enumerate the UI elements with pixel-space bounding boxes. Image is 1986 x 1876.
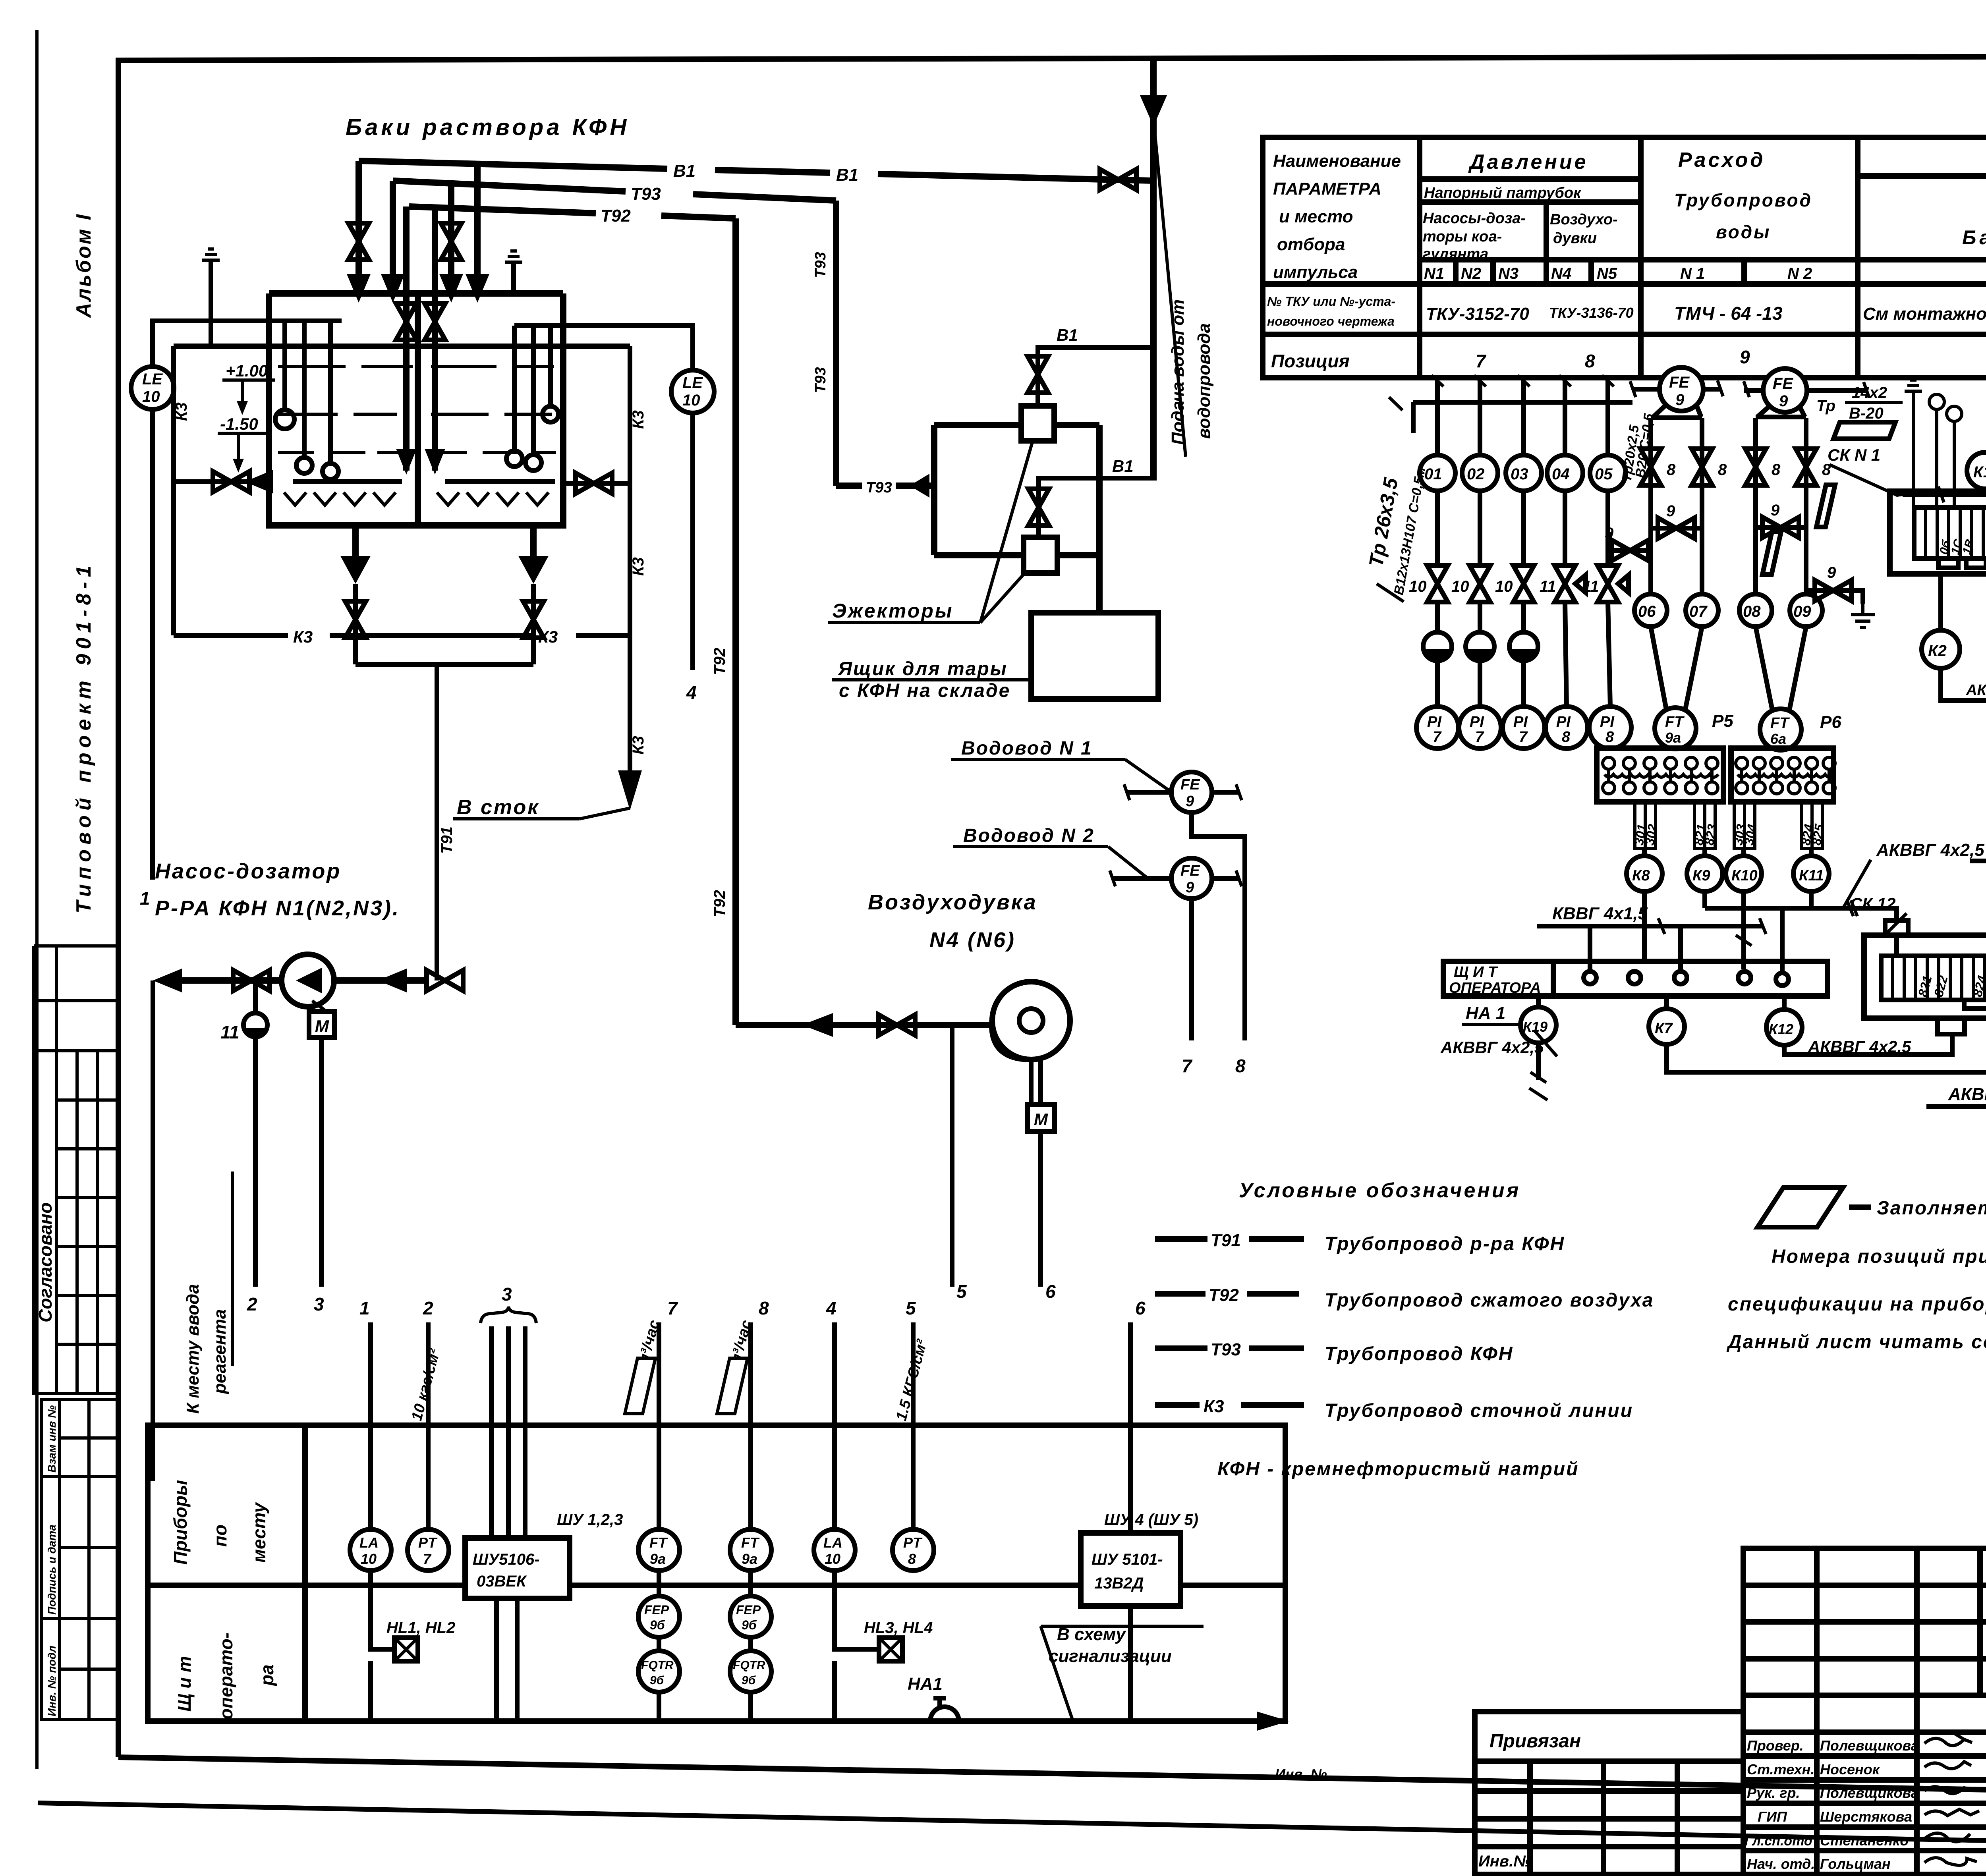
left K3 standpipe [171, 346, 176, 635]
svg-text:9б: 9б [650, 1674, 665, 1687]
false floor right tank [445, 479, 555, 484]
svg-text:Р-РА КФН N1(N2,N3).: Р-РА КФН N1(N2,N3). [155, 896, 400, 920]
blower motor box [1028, 1104, 1055, 1131]
impulse line 08 [1753, 418, 1758, 594]
impulse line 05 [1608, 381, 1610, 706]
9-valve right of 09 to ground [1806, 591, 1863, 604]
LE 10 circle right [671, 370, 714, 413]
LE 10 circle left [131, 367, 174, 409]
air pipe into right tank (Т92) with valve and arrow [432, 207, 438, 471]
tank outlet left: arrow, valve [352, 525, 359, 556]
svg-text:Шерстякова: Шерстякова [1820, 1808, 1912, 1825]
svg-text:9а: 9а [742, 1551, 757, 1567]
svg-text:В-20: В-20 [1849, 405, 1884, 422]
svg-text:К9: К9 [1692, 867, 1710, 884]
svg-text:9: 9 [1186, 793, 1194, 810]
vent stub left [209, 260, 213, 346]
К19 relay [1536, 996, 1541, 1007]
svg-text:PI: PI [1470, 714, 1484, 730]
svg-text:6а: 6а [1770, 731, 1786, 747]
svg-text:спецификации на приборы и: спецификации на приборы и средства автом… [1728, 1294, 1986, 1315]
svg-text:LE: LE [682, 374, 703, 392]
svg-text:10: 10 [142, 388, 160, 405]
flow arrow right of pump [378, 969, 407, 992]
relay К9 [1687, 856, 1723, 892]
svg-text:ШУ 5101-: ШУ 5101- [1092, 1551, 1163, 1568]
svg-text:7: 7 [423, 1551, 432, 1567]
ejector lower line [934, 552, 1099, 558]
Т93 standpipe [833, 201, 839, 486]
svg-text:Трубопровод р-ра КФН: Трубопровод р-ра КФН [1325, 1233, 1565, 1255]
pipe run Т92 [409, 207, 736, 218]
blower line down to 5 [950, 1025, 954, 1287]
svg-text:Водовод N 1: Водовод N 1 [961, 738, 1093, 759]
svg-text:В сток: В сток [457, 796, 540, 819]
blower M line down to 6 [1038, 1131, 1043, 1287]
svg-text:03ВЕК: 03ВЕК [477, 1573, 527, 1590]
cable tags 301/302 [1635, 803, 1645, 849]
relay К8 [1627, 856, 1662, 892]
svg-text:М: М [315, 1017, 329, 1035]
frame bottom line [118, 1757, 1986, 1800]
svg-text:К11: К11 [1799, 867, 1824, 884]
T91 collection header [355, 664, 533, 980]
К7 relay [1664, 996, 1669, 1009]
svg-text:11: 11 [1540, 578, 1556, 595]
sheet bottom edge line [38, 1803, 1986, 1852]
svg-text:9: 9 [1740, 347, 1750, 367]
svg-text:8: 8 [1585, 351, 1595, 371]
svg-text:ОПЕРАТОРА: ОПЕРАТОРА [1449, 980, 1541, 996]
left drain branch with valve and arrow [174, 479, 269, 484]
svg-text:8: 8 [1667, 461, 1676, 479]
svg-text:FE: FE [1773, 375, 1793, 392]
pump circle P1 [282, 954, 334, 1007]
svg-text:Баки раствора КФН: Баки раствора КФН [1962, 226, 1986, 249]
K3 drain header [174, 633, 630, 638]
svg-text:дувки: дувки [1553, 230, 1597, 247]
svg-text:7: 7 [1519, 729, 1528, 745]
svg-text:Давление: Давление [1468, 151, 1588, 174]
svg-text:Степаненко: Степаненко [1820, 1832, 1909, 1849]
cable tags 821/823 [1694, 803, 1705, 849]
svg-text:Данный лист читать совместн: Данный лист читать совместно с листом ЭЛ… [1726, 1332, 1986, 1353]
svg-text:КФН - кремнефтористый натрий: КФН - кремнефтористый натрий [1217, 1459, 1579, 1480]
svg-text:К3: К3 [293, 627, 313, 646]
svg-text:05: 05 [1595, 465, 1613, 483]
svg-text:06: 06 [1638, 603, 1656, 620]
FT 9а circle [1655, 708, 1696, 749]
svg-text:FE: FE [1180, 776, 1200, 793]
tank feed pipe 3 (Т93 branch) with valve [448, 181, 454, 278]
signatures table [1743, 1548, 1986, 1874]
svg-text:ШУ 1,2,3: ШУ 1,2,3 [557, 1511, 623, 1529]
svg-text:См монтажно-эксплуатационную: См монтажно-эксплуатационную инструкцию [1863, 304, 1986, 324]
sidebar box above Согласовано [34, 946, 118, 1051]
СК N1 wires from top [1905, 380, 1922, 391]
vent stub right [511, 262, 516, 293]
svg-text:Насос-дозатор: Насос-дозатор [155, 859, 341, 883]
svg-text:Рук. гр.: Рук. гр. [1747, 1785, 1800, 1801]
svg-text:14х2: 14х2 [1852, 384, 1887, 401]
svg-text:ПАРАМЕТРА: ПАРАМЕТРА [1273, 179, 1381, 199]
stub 1: LA10 [368, 1322, 373, 1529]
svg-text:Согласовано: Согласовано [35, 1202, 56, 1322]
FE 9 circle 1 [1660, 367, 1703, 411]
sidebar lower table: Взам инв № / Подпись и дата / Инв № подл [41, 1399, 118, 1720]
svg-text:9: 9 [1827, 564, 1836, 581]
Т92 long standpipe [732, 218, 739, 1025]
svg-text:АКВВГ 4х2,5: АКВВГ 4х2,5 [1440, 1038, 1544, 1057]
stub 6: ШУ5101 box [1128, 1322, 1133, 1533]
svg-text:Трубопровод КФН: Трубопровод КФН [1325, 1343, 1513, 1365]
svg-text:К2: К2 [1928, 642, 1947, 660]
svg-text:10: 10 [1495, 578, 1513, 595]
air pipe into left tank (Т92) with valve and arrow [403, 207, 410, 471]
svg-text:11: 11 [1582, 578, 1599, 595]
svg-text:Позиция: Позиция [1271, 351, 1350, 371]
svg-text:6: 6 [1135, 1298, 1146, 1318]
svg-text:Р6: Р6 [1820, 712, 1841, 732]
К12 relay [1782, 996, 1787, 1009]
svg-text:Инв.№: Инв.№ [1478, 1853, 1532, 1870]
svg-text:месту: месту [249, 1502, 269, 1563]
lower ejector box [1024, 537, 1057, 573]
svg-text:Приборы: Приборы [170, 1480, 191, 1565]
svg-text:НА 1: НА 1 [1466, 1004, 1505, 1023]
svg-text:FE: FE [1669, 374, 1690, 391]
ejector right vertical down to box [1096, 425, 1103, 613]
svg-text:7: 7 [1476, 351, 1487, 371]
impulse line 07 [1700, 418, 1704, 594]
upper ejector box [1021, 406, 1054, 441]
svg-text:АКВВГ 10х2,5: АКВВГ 10х2,5 [1948, 1085, 1986, 1104]
9-valve stub left of 06 [1609, 532, 1651, 550]
svg-text:9б: 9б [742, 1618, 757, 1632]
svg-text:5: 5 [956, 1281, 967, 1302]
svg-text:Воздуходувка: Воздуходувка [868, 890, 1037, 914]
svg-text:К3: К3 [630, 736, 647, 755]
right drain branch with valve [563, 481, 630, 486]
valve left of pump [233, 970, 270, 991]
svg-text:К12: К12 [1769, 1021, 1793, 1037]
svg-text:Трубопровод сжатого воздуха: Трубопровод сжатого воздуха [1325, 1290, 1654, 1311]
svg-text:8: 8 [908, 1551, 916, 1567]
svg-text:FT: FT [649, 1534, 668, 1551]
svg-text:Насосы-доза-: Насосы-доза- [1423, 210, 1526, 227]
svg-text:+1.00: +1.00 [226, 361, 268, 380]
terminal block 2 [1731, 748, 1833, 802]
svg-text:В1: В1 [1057, 326, 1078, 344]
svg-text:N 2: N 2 [1787, 265, 1812, 282]
Привязан table [1475, 1712, 1743, 1874]
svg-text:Т93: Т93 [812, 367, 829, 393]
svg-text:импульса: импульса [1273, 262, 1358, 282]
svg-text:N4: N4 [1551, 265, 1571, 282]
svg-text:2: 2 [423, 1298, 433, 1318]
svg-text:Гл.сп.отд: Гл.сп.отд [1745, 1834, 1812, 1849]
svg-text:LA: LA [359, 1534, 379, 1551]
svg-text:Т92: Т92 [711, 648, 728, 675]
tank feed pipe 4 (В1 branch) [474, 161, 481, 278]
svg-text:Ст.техн.: Ст.техн. [1747, 1761, 1814, 1778]
Ящик box [1031, 613, 1158, 699]
В сток arrow [618, 770, 642, 810]
LE right signal line down to 4 [690, 413, 695, 670]
svg-text:ШУ 4 (ШУ 5): ШУ 4 (ШУ 5) [1104, 1511, 1198, 1529]
svg-text:9: 9 [1779, 392, 1788, 410]
svg-text:АКВВГ 4х2,5: АКВВГ 4х2,5 [1876, 840, 1984, 860]
svg-text:LA: LA [823, 1534, 842, 1551]
svg-text:FT: FT [1665, 714, 1685, 730]
svg-text:8: 8 [1605, 729, 1614, 745]
svg-text:04: 04 [1552, 465, 1570, 483]
stub 3: three lines into ШУ5106 [491, 1326, 525, 1538]
svg-text:КВВГ 4х1,5: КВВГ 4х1,5 [1552, 904, 1648, 923]
svg-text:по: по [210, 1525, 230, 1547]
svg-text:10: 10 [682, 392, 700, 409]
СК N1 parallelogram + label [1833, 422, 1895, 439]
svg-text:9: 9 [1186, 879, 1194, 896]
relay К10 [1726, 856, 1762, 892]
relay К11 [1793, 856, 1829, 892]
lower ejector water valve and branch В1 [1039, 478, 1152, 537]
svg-text:ТКУ-3152-70: ТКУ-3152-70 [1426, 304, 1529, 324]
svg-text:9б: 9б [650, 1618, 665, 1632]
cable tags 303/304 [1734, 803, 1745, 849]
valve right of pump [427, 970, 463, 991]
svg-text:N1: N1 [1424, 265, 1444, 282]
svg-text:отбора: отбора [1277, 235, 1345, 254]
line from 11 down to 2 [253, 1037, 258, 1287]
svg-text:Т93: Т93 [812, 252, 829, 278]
svg-text:Заполняется при привязке пр: Заполняется при привязке проекта. [1877, 1198, 1986, 1219]
svg-text:Расход: Расход [1678, 149, 1765, 172]
svg-text:Щ И Т: Щ И Т [1454, 964, 1498, 980]
СК N1 block [1890, 491, 1986, 574]
tank outer walls [269, 293, 563, 525]
right K3 standpipe [628, 346, 632, 776]
valve on В1 top run [1100, 169, 1136, 190]
В1 main standpipe from водопровод [1150, 60, 1157, 481]
svg-text:FEP: FEP [644, 1603, 669, 1617]
svg-text:реагента: реагента [210, 1309, 230, 1394]
svg-text:8: 8 [1772, 461, 1781, 479]
svg-text:9: 9 [1666, 502, 1675, 520]
svg-text:4: 4 [686, 682, 697, 703]
9-valve between 06 07 [1651, 526, 1702, 531]
tank feed pipe 2 (Т93) [390, 181, 396, 278]
svg-text:Номера позиций приборов соо: Номера позиций приборов соответствуют за… [1772, 1246, 1986, 1267]
svg-text:торы коа-: торы коа- [1423, 228, 1502, 245]
svg-text:10: 10 [825, 1551, 840, 1567]
svg-text:ТКУ-3136-70: ТКУ-3136-70 [1549, 305, 1634, 321]
svg-text:СК N 1: СК N 1 [1828, 446, 1880, 464]
svg-text:7: 7 [667, 1298, 678, 1318]
perforation V marks left tank [284, 492, 396, 505]
row divider [148, 1583, 1285, 1588]
blower body [992, 982, 1070, 1060]
pipe run В1 [359, 161, 1153, 181]
panel outer box [148, 1425, 1285, 1721]
impulse line 06 [1648, 418, 1653, 594]
water level dash lines right tank [431, 367, 556, 453]
Щит оператора box [1443, 961, 1828, 996]
svg-text:операто-: операто- [216, 1633, 236, 1720]
impulse line 01 [1435, 381, 1440, 707]
svg-text:03: 03 [1511, 465, 1528, 483]
svg-text:Водовод N 2: Водовод N 2 [963, 825, 1095, 846]
svg-text:6: 6 [1045, 1281, 1056, 1302]
svg-text:ТМЧ - 64 -13: ТМЧ - 64 -13 [1674, 303, 1783, 324]
svg-text:9: 9 [1605, 525, 1614, 542]
svg-text:и место: и место [1279, 207, 1353, 226]
svg-text:К3: К3 [630, 410, 647, 429]
svg-text:К10: К10 [1731, 867, 1758, 884]
svg-text:К месту ввода: К месту ввода [183, 1284, 203, 1414]
pump motor box M [309, 1011, 334, 1038]
svg-text:М: М [1034, 1110, 1048, 1129]
svg-text:9: 9 [1771, 502, 1780, 519]
svg-text:FT: FT [741, 1534, 760, 1551]
svg-text:К3: К3 [630, 557, 647, 576]
impulse line 02 [1478, 381, 1482, 707]
svg-text:ШУ5106-: ШУ5106- [473, 1551, 540, 1568]
impulse lines header [1413, 402, 1632, 433]
svg-text:13В2Д: 13В2Д [1094, 1575, 1144, 1592]
svg-text:8: 8 [1562, 729, 1571, 745]
water level dash lines left tank [278, 367, 413, 453]
svg-text:Подпись и дата: Подпись и дата [46, 1525, 58, 1615]
ejector loop left vertical [931, 425, 937, 555]
M line down to 3 [319, 1038, 324, 1287]
К1 circle and line [1903, 492, 1986, 497]
FT 6а circle [1760, 709, 1801, 750]
svg-text:Баки раствора КФН: Баки раствора КФН [346, 114, 630, 140]
svg-text:Полевщикова: Полевщикова [1820, 1737, 1919, 1754]
svg-text:гулянта: гулянта [1423, 246, 1488, 262]
svg-text:Т91: Т91 [438, 826, 456, 854]
svg-text:К7: К7 [1655, 1020, 1673, 1037]
svg-text:Эжекторы: Эжекторы [832, 600, 954, 622]
stub 8: FT9а #2 [748, 1322, 753, 1529]
svg-text:5: 5 [906, 1298, 916, 1318]
svg-text:7: 7 [1182, 1056, 1193, 1076]
impulse line 09 [1804, 418, 1808, 594]
svg-text:АКВВГ 4х2,5: АКВВГ 4х2,5 [1808, 1037, 1911, 1056]
discharge line down to injection point [151, 980, 155, 1481]
svg-text:Трубопровод: Трубопровод [1674, 190, 1812, 210]
svg-text:Р5: Р5 [1712, 711, 1733, 731]
panel verticals [1590, 908, 1782, 973]
upper ejector water valve and branch В1 [1038, 347, 1152, 406]
К8 line to panel [1642, 892, 1647, 961]
svg-text:10: 10 [1451, 578, 1469, 595]
impulse line 03 [1521, 381, 1526, 707]
svg-text:1: 1 [140, 888, 150, 909]
svg-text:Щ и т: Щ и т [174, 1656, 195, 1712]
stub 4: LA10 [832, 1322, 837, 1529]
svg-text:Т93: Т93 [631, 184, 661, 204]
svg-text:Т92: Т92 [601, 206, 631, 226]
pump suction/discharge pipe [181, 977, 429, 984]
svg-text:Т93: Т93 [1211, 1340, 1241, 1359]
svg-text:PI: PI [1600, 714, 1615, 730]
svg-text:9а: 9а [650, 1551, 666, 1567]
LE left signal line down to 1 [150, 409, 155, 880]
stub 7: FT9а with м3/час [657, 1322, 661, 1529]
svg-text:7: 7 [1475, 729, 1484, 745]
svg-text:FQTR: FQTR [733, 1659, 765, 1672]
svg-text:8: 8 [1718, 461, 1727, 479]
svg-text:FT: FT [1770, 715, 1790, 731]
svg-text:8: 8 [1235, 1056, 1246, 1076]
signal bus along panel bottom with arrow [371, 1661, 1130, 1721]
svg-text:08: 08 [1743, 603, 1761, 620]
svg-text:HL1, HL2: HL1, HL2 [386, 1619, 455, 1637]
sidebar Согласовано table [34, 1051, 118, 1393]
svg-text:01: 01 [1424, 465, 1442, 483]
svg-text:Т93: Т93 [866, 479, 892, 496]
svg-text:Т92: Т92 [711, 890, 728, 917]
svg-text:ра: ра [257, 1664, 277, 1687]
tank rim line with left and right extensions [174, 344, 630, 349]
svg-text:К3: К3 [173, 402, 190, 421]
svg-text:Инв. №: Инв. № [1275, 1766, 1327, 1782]
svg-text:N3: N3 [1498, 265, 1518, 282]
svg-text:N 1: N 1 [1680, 265, 1705, 282]
svg-text:Носенок: Носенок [1820, 1761, 1880, 1778]
svg-text:Ящик для тары: Ящик для тары [837, 658, 1008, 679]
svg-text:7: 7 [1433, 729, 1442, 745]
svg-text:9а: 9а [1665, 730, 1681, 746]
signature squiggles [1924, 1733, 1972, 1746]
stub 2: PT7 with 10кгс [426, 1322, 431, 1529]
Т93 feed to ejectors with arrow [836, 483, 934, 489]
svg-text:HL3, HL4: HL3, HL4 [864, 1619, 933, 1637]
svg-text:Привязан: Привязан [1489, 1731, 1581, 1752]
svg-text:10: 10 [1409, 578, 1427, 595]
stub 5: PT8 with 1.5кгс [911, 1322, 916, 1529]
9-valve between 08 09 [1756, 525, 1806, 530]
svg-text:Типовой проект 901-8-1: Типовой проект 901-8-1 [72, 561, 95, 913]
svg-text:PI: PI [1556, 714, 1571, 730]
svg-text:9: 9 [1675, 391, 1685, 409]
svg-text:3: 3 [314, 1294, 324, 1314]
discharge arrow to injection point [153, 969, 182, 992]
svg-text:№ ТКУ или №-уста-: № ТКУ или №-уста- [1267, 294, 1395, 309]
svg-text:К8: К8 [1632, 867, 1650, 884]
К10 line to panel [1741, 892, 1746, 969]
ejector upper line [934, 422, 1099, 428]
svg-text:FQTR: FQTR [641, 1659, 674, 1672]
svg-text:09: 09 [1793, 603, 1811, 620]
tank feed pipe 1 (В1) with valve [355, 161, 362, 278]
ШУ5106 box [465, 1538, 570, 1598]
tank outlet right: arrow, valve [530, 525, 537, 556]
svg-text:LE: LE [142, 371, 163, 388]
perforation V marks right tank [437, 492, 549, 505]
false floor left tank [293, 479, 402, 484]
svg-text:водопровода: водопровода [1194, 323, 1214, 439]
svg-text:N2: N2 [1461, 265, 1481, 282]
svg-text:К1: К1 [1973, 463, 1986, 481]
parallelogram mark 2 [1762, 532, 1781, 575]
svg-text:Т91: Т91 [1211, 1231, 1241, 1250]
svg-text:ГИП: ГИП [1758, 1808, 1787, 1825]
svg-text:СК 12: СК 12 [1850, 894, 1896, 913]
svg-text:Провер.: Провер. [1747, 1737, 1804, 1754]
